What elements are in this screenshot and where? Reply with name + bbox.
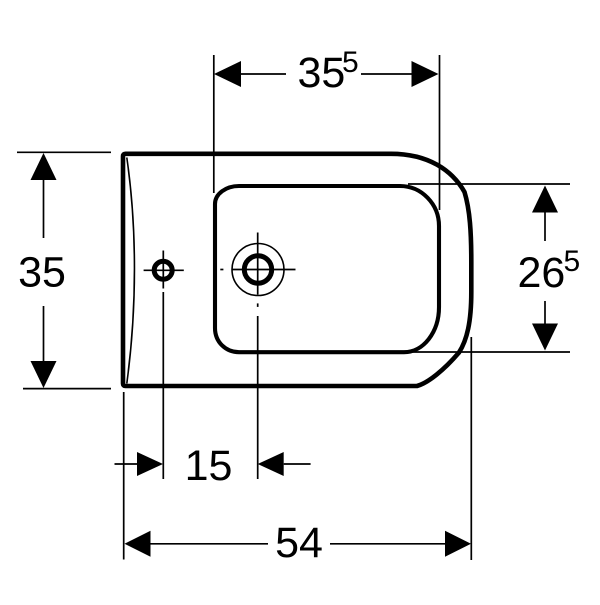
dim 15 bottom: right arrow: [258, 452, 284, 476]
tap hole crosshair vertical: [257, 233, 259, 295]
bidet outer outline: [123, 154, 471, 386]
svg-text:5: 5: [342, 46, 359, 79]
svg-text:54: 54: [275, 519, 323, 567]
dim 26.5 right: top arrow: [532, 186, 558, 213]
tap hole bold circle: [244, 256, 271, 283]
dim 35.5 top: dimension line: [241, 73, 286, 75]
dim 15 bottom: left arrow: [137, 452, 163, 476]
back edge curve: [127, 158, 135, 384]
dim 35 left: extension lines: [17, 151, 111, 153]
dim 26.5 right: extension lines: [408, 183, 570, 185]
dim 35.5 top: left arrow: [214, 61, 241, 87]
side hole crosshair horizontal: [144, 269, 184, 271]
dim 54 bottom: dimension line: [151, 543, 269, 545]
tap hole thin circle: [232, 244, 284, 296]
svg-text:35: 35: [18, 249, 66, 297]
dim 26.5 right: dimension line: [544, 212, 546, 241]
dim 35 left: top arrow: [31, 153, 57, 180]
dim 35 left: dimension line: [43, 180, 45, 238]
side hole bold circle: [154, 261, 172, 279]
dim 35.5 top: extension lines: [213, 55, 215, 193]
dim 26.5 right: bottom arrow: [532, 324, 558, 351]
dim 54 bottom: left arrow: [125, 531, 151, 557]
dim 35 left: bottom arrow: [31, 361, 57, 388]
dim 54 bottom: right arrow: [445, 531, 471, 557]
side hole crosshair vertical: [162, 251, 164, 289]
inner basin outline: [215, 186, 439, 352]
svg-text:26: 26: [518, 249, 566, 297]
dim 54 bottom: extension lines: [123, 392, 125, 560]
tap hole crosshair horizontal: [220, 269, 223, 271]
dim 15 bottom: dimension line tails: [115, 463, 138, 465]
svg-text:5: 5: [564, 245, 581, 278]
svg-text:15: 15: [185, 442, 233, 490]
svg-text:35: 35: [298, 49, 346, 97]
dim 15 bottom: extension lines: [162, 292, 164, 479]
dim 35.5 top: right arrow: [412, 61, 439, 87]
